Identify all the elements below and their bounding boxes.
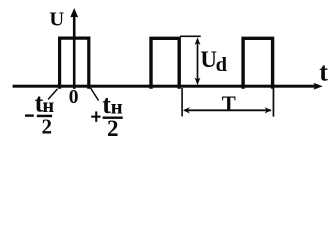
amplitude arrow top head [195,37,201,45]
pulse 3 [243,38,273,89]
label minus sign [25,114,34,116]
amplitude arrow Ud line [197,43,199,80]
svg-text:T: T [222,91,236,115]
period arrow left head [183,107,190,113]
label plus sign horizontal [91,116,100,118]
svg-text:d: d [216,54,228,76]
svg-text:2: 2 [107,116,119,137]
svg-text:t: t [319,58,328,87]
svg-text:2: 2 [42,114,53,137]
period arrow right head [265,107,272,113]
svg-text:0: 0 [69,87,79,108]
leader line right of origin [91,88,99,101]
extension line below pulse 2 [181,88,183,116]
leader line left of origin [48,89,57,100]
left fraction bar [37,115,52,118]
horizontal axis t [13,85,315,88]
extension line below pulse 3 [273,88,275,117]
horizontal axis arrowhead [313,83,322,90]
vertical axis U [73,14,76,89]
svg-text:U: U [49,9,64,31]
amplitude arrow bottom head [195,78,201,86]
period arrow T line [185,109,272,111]
label plus sign vertical [95,111,97,121]
right fraction bar [103,117,123,119]
vertical axis arrowhead [70,8,78,17]
reference line from pulse 2 top [180,36,201,38]
pulse 2 [151,38,179,89]
pulse 1 [60,38,89,89]
svg-text:н: н [111,94,123,118]
